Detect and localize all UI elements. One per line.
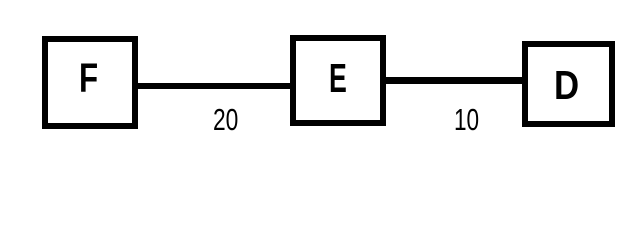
value label 10	[454, 105, 479, 136]
wire edge E-D	[386, 77, 522, 84]
value label 20	[213, 105, 238, 136]
node E box	[290, 35, 386, 126]
label E	[329, 58, 347, 99]
node D box	[522, 41, 615, 127]
node F box	[42, 36, 138, 129]
wire edge F-E	[138, 83, 290, 89]
label D	[554, 65, 579, 106]
label F	[79, 58, 98, 99]
